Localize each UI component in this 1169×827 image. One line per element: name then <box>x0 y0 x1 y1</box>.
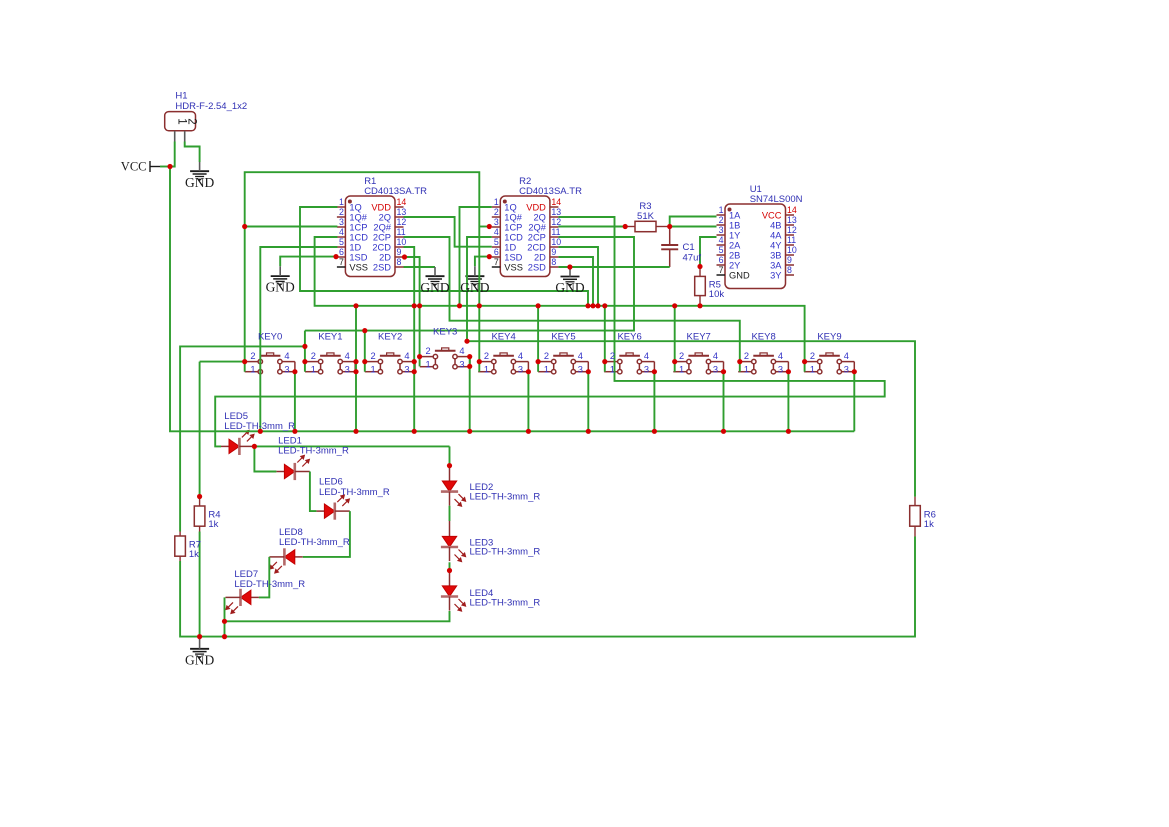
svg-text:2D: 2D <box>534 252 546 262</box>
svg-text:LED-TH-3mm_R: LED-TH-3mm_R <box>319 487 390 498</box>
IC R1 pin 14 stub <box>395 206 404 208</box>
node R4 top <box>197 494 202 499</box>
IC U1 pin 3 stub <box>717 234 726 236</box>
IC U1 pin 6 stub <box>717 264 726 266</box>
connector H1 pin 1 stub <box>174 131 176 142</box>
svg-text:KEY8: KEY8 <box>751 331 775 342</box>
wire H1 pin1 down to VCC junction <box>170 142 175 167</box>
svg-text:1: 1 <box>810 365 815 375</box>
svg-text:GND: GND <box>266 280 295 295</box>
svg-text:8: 8 <box>551 257 556 267</box>
wire KEY7 pins 1-2 column <box>674 306 676 372</box>
wire KEY9 pin3 column <box>853 372 855 432</box>
node VCC junction <box>167 164 172 169</box>
svg-text:2Q: 2Q <box>533 212 545 222</box>
svg-text:4: 4 <box>345 351 350 361</box>
switch KEY7 body <box>673 353 723 374</box>
svg-text:1k: 1k <box>189 549 199 560</box>
svg-text:2: 2 <box>494 207 499 217</box>
node R2 pin8 <box>567 264 572 269</box>
svg-text:3A: 3A <box>770 260 782 270</box>
svg-text:1: 1 <box>544 365 549 375</box>
svg-text:2A: 2A <box>729 240 741 250</box>
svg-text:1: 1 <box>311 365 316 375</box>
svg-text:3: 3 <box>404 365 409 375</box>
node R3 right C1 top <box>667 224 672 229</box>
wire LED7 cathode down to GND rail <box>224 597 226 636</box>
wire R1 pin3 to KEY0 column <box>245 226 338 228</box>
svg-text:GND: GND <box>185 175 214 190</box>
node mid bus junctions <box>353 303 358 308</box>
svg-text:2CD: 2CD <box>527 242 546 252</box>
svg-text:2: 2 <box>744 351 749 361</box>
node LED7 cathode junctions <box>222 619 227 624</box>
wire y=346 to R7 top <box>180 346 305 531</box>
IC U1 pin 2 stub <box>717 224 726 226</box>
svg-text:1: 1 <box>610 365 615 375</box>
svg-text:2: 2 <box>679 351 684 361</box>
wire R1 pin4 start of mid bus y=306 to KEY9 <box>315 237 805 372</box>
svg-text:KEY2: KEY2 <box>378 331 402 342</box>
svg-text:3: 3 <box>518 365 523 375</box>
resistor R4 <box>194 506 205 526</box>
svg-text:3: 3 <box>284 365 289 375</box>
IC R1 pin 6 stub <box>337 256 346 258</box>
wire KEY3 pins 3-4 column <box>469 357 471 432</box>
svg-text:VDD: VDD <box>526 202 546 212</box>
wire R4 bottom to GND rail <box>199 532 201 637</box>
node R5 top <box>697 264 702 269</box>
wire R2 pin10 down to mid bus <box>558 247 598 306</box>
svg-text:11: 11 <box>397 227 406 237</box>
IC U1 pin 10 stub <box>786 254 795 256</box>
svg-text:LED-TH-3mm_R: LED-TH-3mm_R <box>278 446 349 457</box>
svg-text:2B: 2B <box>729 250 740 260</box>
svg-text:KEY0: KEY0 <box>258 331 282 342</box>
svg-text:KEY6: KEY6 <box>617 331 641 342</box>
IC R2 pin 13 stub <box>550 216 559 218</box>
svg-text:KEY5: KEY5 <box>551 331 575 342</box>
IC R1 pin 5 stub <box>337 246 346 248</box>
svg-text:11: 11 <box>551 227 560 237</box>
IC R1 pin 13 stub <box>395 216 404 218</box>
svg-text:2: 2 <box>311 351 316 361</box>
resistor R3 body <box>635 221 656 231</box>
svg-text:8: 8 <box>787 265 792 275</box>
svg-text:1: 1 <box>679 365 684 375</box>
svg-text:GND: GND <box>555 280 584 295</box>
node R1 pin3 junction <box>242 224 247 229</box>
resistor R5 <box>695 276 706 295</box>
IC R1 pin 8 stub <box>395 266 404 268</box>
svg-text:2: 2 <box>426 346 431 356</box>
svg-text:2D: 2D <box>379 252 391 262</box>
node LED4 anode <box>447 568 452 573</box>
svg-text:3: 3 <box>778 365 783 375</box>
IC U1 pin 4 stub <box>717 244 726 246</box>
svg-text:1: 1 <box>484 365 489 375</box>
svg-text:9: 9 <box>551 247 556 257</box>
svg-text:3: 3 <box>339 217 344 227</box>
svg-text:7: 7 <box>339 257 344 267</box>
wire R2 pin3 stub wire <box>479 226 489 228</box>
node LED5 cathode <box>252 444 257 449</box>
svg-text:KEY3: KEY3 <box>433 327 457 338</box>
svg-text:2SD: 2SD <box>528 262 546 272</box>
svg-text:1Q#: 1Q# <box>349 212 367 222</box>
wire R1 pin13 to R2 pin5 <box>404 217 492 247</box>
IC R2 body <box>500 196 550 277</box>
svg-text:2Q#: 2Q# <box>528 222 546 232</box>
svg-text:5: 5 <box>719 245 724 255</box>
switch KEY9 body <box>804 353 854 374</box>
wire R1 pin6 to ground <box>280 257 336 267</box>
svg-text:9: 9 <box>787 255 792 265</box>
svg-text:4: 4 <box>494 227 499 237</box>
svg-text:4: 4 <box>644 351 649 361</box>
IC R2 pin 1 stub <box>492 206 501 208</box>
node R3 left <box>623 224 628 229</box>
IC R2 pin 12 stub <box>550 226 559 228</box>
wire R2 pin11 across y=330 to KEY1 <box>305 237 634 331</box>
svg-text:VDD: VDD <box>371 202 391 212</box>
node R1 pin9 <box>402 254 407 259</box>
wire R4 column down <box>199 362 201 497</box>
svg-text:GND: GND <box>460 280 489 295</box>
wire KEY0 pins 3-4 column <box>294 372 296 432</box>
svg-text:1: 1 <box>371 365 376 375</box>
IC R1 pin 4 stub <box>337 236 346 238</box>
IC R2 pin 4 stub <box>492 236 501 238</box>
svg-text:1Q#: 1Q# <box>504 212 522 222</box>
IC R2 pin 9 stub <box>550 256 559 258</box>
wire KEY5 pins 1-2 column <box>537 306 539 372</box>
svg-text:2: 2 <box>250 351 255 361</box>
svg-text:12: 12 <box>397 217 407 227</box>
net flag VCC <box>149 161 151 172</box>
LED LED6 <box>316 510 324 512</box>
wire R1 pin8 to ground <box>404 266 436 268</box>
IC R2 pin 2 stub <box>492 216 501 218</box>
svg-text:9: 9 <box>397 247 402 257</box>
wire KEY6 pins 1-2 column <box>604 306 606 372</box>
wire KEY8 pins 3-4 column <box>787 372 789 432</box>
wire R3 right up to U1 pin1 <box>670 217 717 227</box>
IC R1 pin 9 stub <box>395 256 404 258</box>
IC U1 pin 7 stub <box>717 274 726 276</box>
svg-text:KEY4: KEY4 <box>491 331 515 342</box>
resistor R5 leads <box>699 267 701 277</box>
svg-text:3: 3 <box>494 217 499 227</box>
svg-text:2CD: 2CD <box>372 242 391 252</box>
wire R2 pin12 to R3 left <box>558 226 625 228</box>
node R6 feed junction <box>464 339 469 344</box>
svg-text:5: 5 <box>339 237 344 247</box>
LED LED2 <box>449 466 451 481</box>
svg-text:2: 2 <box>371 351 376 361</box>
svg-text:10: 10 <box>551 237 561 247</box>
svg-text:4: 4 <box>778 351 783 361</box>
IC R1 pin 12 stub <box>395 226 404 228</box>
wire R1 pin5 through KEY0 to VCC bus <box>260 247 337 431</box>
IC U1 pin 13 stub <box>786 224 795 226</box>
svg-text:1B: 1B <box>729 220 740 230</box>
svg-text:1SD: 1SD <box>504 252 522 262</box>
wire LED2 cathode to LED3 anode <box>449 506 451 521</box>
node R1 pin6 <box>333 254 338 259</box>
wire R2 pin4 across y=341 to R6 column <box>467 237 915 497</box>
resistor R4 leads <box>199 497 201 507</box>
svg-text:1k: 1k <box>208 519 218 530</box>
svg-text:1: 1 <box>250 365 255 375</box>
svg-text:3: 3 <box>844 365 849 375</box>
svg-text:2Q#: 2Q# <box>373 222 391 232</box>
svg-text:U1: U1 <box>750 184 762 195</box>
svg-text:LED-TH-3mm_R: LED-TH-3mm_R <box>234 579 305 590</box>
node R5 bottom <box>697 303 702 308</box>
svg-text:4: 4 <box>459 346 464 356</box>
IC R1 pin 11 stub <box>395 236 404 238</box>
ground GND-R2-right <box>561 277 580 287</box>
IC U1 body <box>725 204 786 289</box>
IC U1 pin 1 stub <box>717 214 726 216</box>
svg-text:1SD: 1SD <box>349 252 367 262</box>
IC R1 pin 7 stub <box>337 266 346 268</box>
wire KEY6 pins 3-4 column <box>653 372 655 432</box>
svg-text:VCC: VCC <box>762 210 782 220</box>
wire R2 pin9 down to mid bus <box>558 257 593 306</box>
svg-text:VSS: VSS <box>504 262 523 272</box>
svg-text:6: 6 <box>339 247 344 257</box>
node KEY pin2 junctions <box>242 359 247 364</box>
resistor R6 <box>910 506 921 527</box>
wire KEY7 pins 3-4 column <box>723 372 725 432</box>
wire LED5 cathode down to LED1 anode <box>254 446 276 471</box>
wire LED3 cathode to LED4 anode <box>449 562 451 570</box>
svg-text:10k: 10k <box>709 289 725 300</box>
IC R2 pin 11 stub <box>550 236 559 238</box>
svg-text:GND: GND <box>185 652 214 667</box>
svg-text:14: 14 <box>551 197 561 207</box>
IC R1 pin 10 stub <box>395 246 404 248</box>
svg-text:4: 4 <box>339 227 344 237</box>
switch KEY1 body <box>305 353 355 374</box>
IC R1 pin 3 stub <box>337 226 346 228</box>
svg-text:2SD: 2SD <box>373 262 391 272</box>
switch KEY8 body <box>738 353 788 374</box>
svg-text:R1: R1 <box>364 176 376 187</box>
svg-text:VSS: VSS <box>349 262 368 272</box>
IC R2 pin 10 stub <box>550 246 559 248</box>
svg-text:3: 3 <box>713 365 718 375</box>
svg-text:10: 10 <box>397 237 407 247</box>
wire R2 pin13 via y=381 y=397 rails to LED5 anode <box>215 217 885 446</box>
IC U1 pin 9 stub <box>786 264 795 266</box>
svg-text:1: 1 <box>426 360 431 370</box>
wire R7 bottom along GND rail to R6 bottom <box>180 537 915 637</box>
svg-text:1CP: 1CP <box>349 222 367 232</box>
svg-text:1: 1 <box>719 205 724 215</box>
svg-text:1: 1 <box>494 197 499 207</box>
svg-text:6: 6 <box>719 255 724 265</box>
wire LED6 cathode to LED8 anode <box>303 511 350 557</box>
svg-text:1D: 1D <box>504 242 516 252</box>
svg-text:2: 2 <box>484 351 489 361</box>
IC U1 pin 8 stub <box>786 274 795 276</box>
resistor R7 <box>175 536 186 556</box>
svg-text:KEY7: KEY7 <box>687 331 711 342</box>
svg-text:3: 3 <box>459 360 464 370</box>
svg-text:4: 4 <box>844 351 849 361</box>
IC U1 pin 14 stub <box>786 214 795 216</box>
switch KEY4 body <box>478 353 528 374</box>
svg-text:14: 14 <box>787 205 797 215</box>
LED LED7 <box>251 596 259 598</box>
svg-text:7: 7 <box>494 257 499 267</box>
wire R1 pin11 across y=321 to KEY8 <box>404 237 740 372</box>
svg-text:4A: 4A <box>770 230 782 240</box>
ground GND-R1-right <box>426 276 445 286</box>
svg-text:GND: GND <box>729 270 750 280</box>
svg-text:1CP: 1CP <box>504 222 522 232</box>
IC R1 body <box>345 196 395 277</box>
svg-text:3: 3 <box>644 365 649 375</box>
wire LED5 cathode rail y=446 to LED2 column <box>254 445 449 447</box>
svg-text:14: 14 <box>397 197 407 207</box>
LED LED8 <box>295 556 303 558</box>
svg-text:1Q: 1Q <box>504 202 516 212</box>
IC R2 pin 14 stub <box>550 206 559 208</box>
wire KEY0 pin2 to R4 column <box>200 361 245 363</box>
svg-text:12: 12 <box>787 225 797 235</box>
svg-text:2CP: 2CP <box>373 232 391 242</box>
node R2 pin3 <box>487 224 492 229</box>
IC R2 pin 7 stub <box>492 266 501 268</box>
svg-text:13: 13 <box>397 207 407 217</box>
svg-text:4: 4 <box>404 351 409 361</box>
node KEY1 feed junction <box>302 344 307 349</box>
svg-text:1k: 1k <box>924 519 934 530</box>
ground GND-R1-left <box>271 276 290 286</box>
svg-text:7: 7 <box>719 265 724 275</box>
svg-text:LED-TH-3mm_R: LED-TH-3mm_R <box>224 421 295 432</box>
svg-text:KEY9: KEY9 <box>817 331 841 342</box>
svg-text:51K: 51K <box>637 211 655 222</box>
svg-text:1CD: 1CD <box>349 232 368 242</box>
IC R2 pin 5 stub <box>492 246 501 248</box>
wire LED4 cathode rail y=621 <box>225 611 450 621</box>
wire R1 pin9 down to KEY3 pins 1-2 <box>404 257 420 366</box>
svg-text:2Y: 2Y <box>729 260 740 270</box>
wire top net KEY0 column to KEY4 column <box>245 172 480 372</box>
svg-text:3B: 3B <box>770 250 781 260</box>
resistor R7 leads <box>179 532 181 537</box>
svg-text:4: 4 <box>719 235 724 245</box>
svg-text:2: 2 <box>339 207 344 217</box>
wire R1 pin1 to mid bus <box>300 207 588 306</box>
svg-text:H1: H1 <box>175 91 187 102</box>
IC U1 pin 11 stub <box>786 244 795 246</box>
ground GND-R2-left <box>465 276 484 286</box>
svg-text:LED-TH-3mm_R: LED-TH-3mm_R <box>470 597 541 608</box>
wire KEY5 pins 3-4 column <box>587 372 589 432</box>
wire KEY1 pins 3-4 column mid bus to VCC bus <box>355 306 357 432</box>
node KEY pin3 junctions <box>292 369 297 374</box>
svg-text:4: 4 <box>518 351 523 361</box>
switch KEY6 body <box>604 353 654 374</box>
svg-text:2: 2 <box>810 351 815 361</box>
wire U1 pin3 to R5 top <box>700 237 717 267</box>
ground GND-H1 <box>190 171 209 181</box>
svg-text:CD4013SA.TR: CD4013SA.TR <box>364 186 427 197</box>
capacitor C1 <box>669 227 671 246</box>
svg-text:KEY1: KEY1 <box>318 331 342 342</box>
svg-text:R2: R2 <box>519 176 531 187</box>
wire LED2 column top <box>449 446 451 465</box>
svg-text:2CP: 2CP <box>528 232 546 242</box>
IC U1 pin 12 stub <box>786 234 795 236</box>
IC R2 pin 6 stub <box>492 256 501 258</box>
svg-text:1A: 1A <box>729 210 741 220</box>
node KEY2 feed junction <box>362 328 367 333</box>
svg-text:LED-TH-3mm_R: LED-TH-3mm_R <box>470 491 541 502</box>
node VCC bus junctions <box>258 429 263 434</box>
IC U1 pin 5 stub <box>717 254 726 256</box>
svg-text:13: 13 <box>787 215 797 225</box>
svg-text:2Q: 2Q <box>379 212 391 222</box>
switch KEY5 body <box>538 353 588 374</box>
svg-text:5: 5 <box>494 237 499 247</box>
wire R1 pin10 down to KEY2 pins 3-4 and VCC bus <box>404 247 415 431</box>
wire KEY2 pins 1-2 column <box>364 331 366 372</box>
connector H1 body <box>165 112 196 131</box>
svg-text:HDR-F-2.54_1x2: HDR-F-2.54_1x2 <box>175 101 247 112</box>
svg-text:LED-TH-3mm_R: LED-TH-3mm_R <box>470 547 541 558</box>
node LED2 anode <box>447 463 452 468</box>
svg-text:4: 4 <box>713 351 718 361</box>
switch KEY3 body <box>420 348 470 369</box>
IC R1 pin 1 stub <box>337 206 346 208</box>
svg-text:1D: 1D <box>349 242 361 252</box>
IC R2 pin 3 stub <box>492 226 501 228</box>
wire VCC flag to junction <box>160 166 170 168</box>
svg-text:1CD: 1CD <box>504 232 523 242</box>
wire KEY4 pins 3-4 column <box>527 372 529 432</box>
svg-text:SN74LS00N: SN74LS00N <box>750 194 803 205</box>
wire LED1 cathode to LED6 anode <box>310 472 317 512</box>
svg-text:12: 12 <box>551 217 561 227</box>
svg-text:CD4013SA.TR: CD4013SA.TR <box>519 186 582 197</box>
svg-text:47uf: 47uf <box>683 252 702 263</box>
svg-text:8: 8 <box>397 257 402 267</box>
IC R1 pin 2 stub <box>337 216 346 218</box>
resistor R6 leads <box>914 497 916 506</box>
svg-text:11: 11 <box>787 235 796 245</box>
svg-text:4: 4 <box>578 351 583 361</box>
svg-text:2: 2 <box>610 351 615 361</box>
svg-text:1Y: 1Y <box>729 230 740 240</box>
svg-text:1: 1 <box>744 365 749 375</box>
wire R2 pin1 down to mid bus <box>460 207 492 306</box>
resistor R3 leads <box>625 226 635 228</box>
svg-text:3: 3 <box>578 365 583 375</box>
svg-text:6: 6 <box>494 247 499 257</box>
svg-text:2: 2 <box>719 215 724 225</box>
wire R2 pin8 to C1 bottom <box>558 266 669 268</box>
LED LED5 <box>221 445 229 447</box>
LED LED3 <box>449 521 451 536</box>
wire LED8 cathode to LED7 anode <box>259 557 269 598</box>
